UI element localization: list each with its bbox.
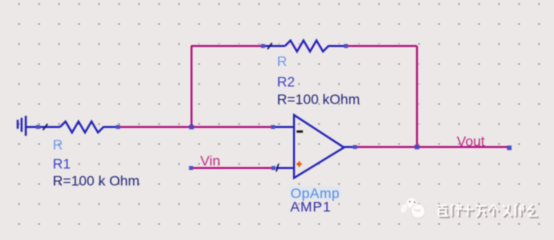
svg-text:R: R	[277, 53, 287, 69]
svg-text:Vout: Vout	[457, 133, 485, 149]
svg-text:R1: R1	[53, 156, 71, 172]
svg-text:AMP1: AMP1	[290, 199, 331, 215]
svg-text:R=100 kOhm: R=100 kOhm	[277, 91, 360, 107]
svg-text:Vin: Vin	[200, 152, 220, 168]
svg-text:R: R	[53, 137, 63, 153]
svg-text:R=100 k Ohm: R=100 k Ohm	[53, 172, 140, 188]
svg-text:R2: R2	[277, 74, 295, 90]
